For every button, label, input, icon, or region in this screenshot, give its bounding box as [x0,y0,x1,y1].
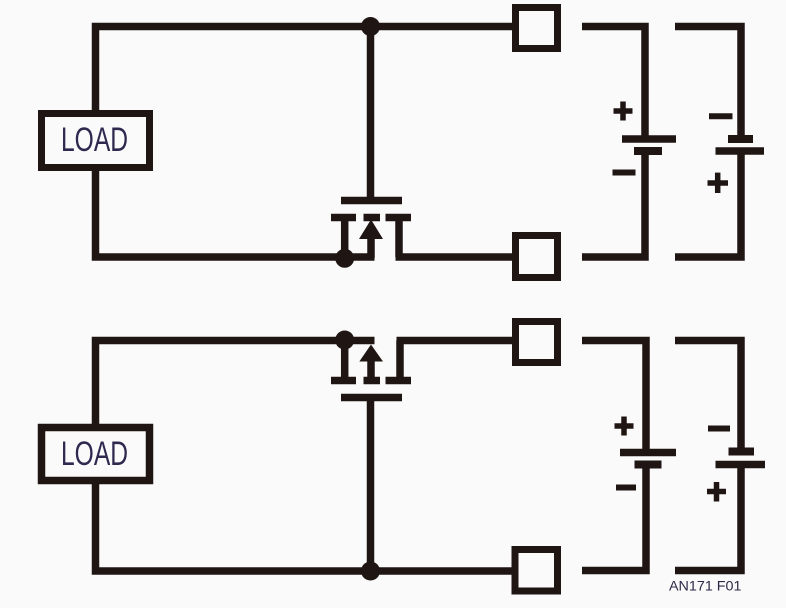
Q1 drain lead [395,215,403,257]
battery BT2, reversed polarity (top circuit) [675,27,764,258]
Q1 source lead [341,215,349,257]
label + (BT2) [708,173,729,193]
svg-text:AN171 F01: AN171 F01 [669,579,742,594]
node: Q1 source junction [335,249,354,268]
Q2 channel drain segment [386,377,412,385]
Q1 channel source segment [331,214,356,222]
wire: bottom rail left segment, LOAD to Q1 source (top circuit) [96,168,375,257]
wire: Q1 gate lead from top rail [367,27,375,201]
svg-text:LOAD: LOAD [61,121,128,159]
node: gate junction on bottom rail (bottom circuit) [361,562,380,581]
BT2 short plate (-) [728,135,753,143]
label - (BT3) [616,485,636,491]
label + (BT4) [707,482,726,502]
Q1 body lead [367,237,375,258]
node: Q2 source junction [335,331,354,350]
Q2 channel body segment [364,377,381,385]
label - (BT4) [708,426,730,432]
BT4 long plate (+) [716,461,766,469]
wire: BT2 positive lead [675,151,741,257]
Q1 body arrow [359,220,383,240]
svg-text:LOAD: LOAD [61,435,128,473]
wire: Q2 gate lead to bottom rail (bottom circuit) [367,398,375,572]
wire: BT3 positive lead [582,341,646,453]
load box LOAD (top circuit) [42,114,150,168]
wire: top rail left segment, LOAD to Q2 source (bottom circuit) [96,341,375,425]
BT1 long plate (+) [622,135,676,143]
wire: bottom rail right segment, Q1 drain to terminal (top circuit) [396,253,514,261]
terminal square: battery connector top (bottom circuit) [516,322,558,363]
label - (BT1) [613,170,636,176]
wire: BT4 negative lead [675,341,741,452]
Q2 body arrow [359,345,383,362]
Q1 channel drain segment [386,214,412,222]
label - (BT2) [709,113,733,119]
terminal square: battery connector bottom (bottom circuit) [515,550,558,592]
wire: top rail right segment, Q2 drain to terminal (bottom circuit) [397,337,515,345]
Q1 gate plate [341,197,402,205]
BT3 long plate (+) [620,449,676,457]
transistor Q2: N-channel MOSFET (bottom circuit) [331,341,411,398]
battery BT3, forward polarity (bottom circuit) [582,341,676,571]
Q1 channel body segment [364,214,381,222]
Q2 drain lead [396,341,404,384]
battery BT4, reversed polarity (bottom circuit) [675,341,765,571]
terminal square: battery connector top (top circuit) [516,8,558,49]
load box LOAD (bottom circuit) [42,428,150,481]
transistor Q1: N-channel MOSFET (top circuit) [331,201,411,259]
wire: BT1 positive lead [582,27,645,140]
label + (BT1) [614,102,633,121]
wire: BT4 positive lead [675,465,741,571]
BT4 short plate (-) [729,448,755,456]
Q2 channel source segment [331,377,356,385]
BT2 long plate (+) [716,147,765,155]
label + (BT3) [615,417,634,436]
Q2 gate plate [341,394,402,402]
wire: top rail, LOAD to terminal (top circuit) [96,27,514,112]
node: gate junction on top rail (top circuit) [361,17,380,36]
terminal square: battery connector bottom (top circuit) [516,236,558,278]
Q2 source lead [341,341,349,384]
wire: BT1 negative lead [582,151,645,257]
Q2 body lead [367,361,375,383]
wire: bottom rail, LOAD to terminal (bottom circuit) [96,480,515,571]
BT1 short plate (-) [634,147,662,155]
BT3 short plate (-) [635,461,662,469]
wire: BT3 negative lead [582,465,646,571]
battery BT1, forward polarity (top circuit) [582,27,676,258]
wire: BT2 negative lead [675,27,741,140]
